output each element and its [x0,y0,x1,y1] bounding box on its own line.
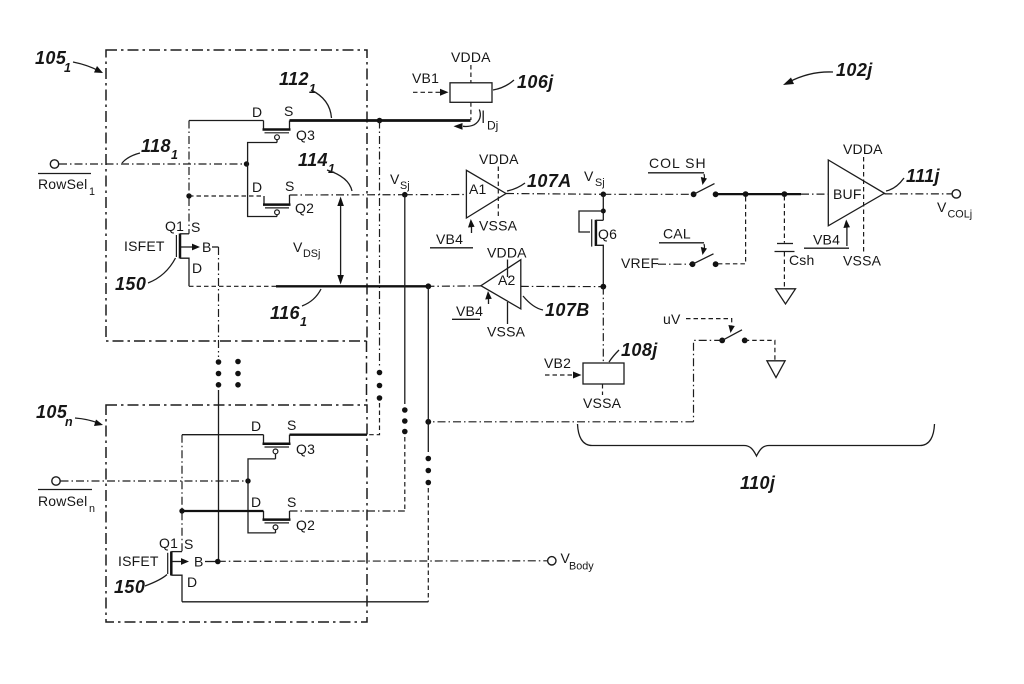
RowSel_1 overbar [38,173,91,175]
wire A1 output to Q6 node [506,193,603,196]
svg-text:112: 112 [279,69,309,89]
feedback column wire lower [427,488,429,602]
switch COL SH [691,191,697,197]
svg-text:n: n [89,503,95,515]
callout curve 106j [493,80,514,90]
callout curve 150 to gate (row n) [145,575,167,587]
op-amp A1 [466,170,506,218]
svg-text:ISFET: ISFET [124,238,165,254]
capacitor Csh [777,243,793,245]
node Q6 gate tie [601,209,606,214]
ISFET channel bar [179,234,182,259]
ISFET drain lead (row n) [171,575,182,602]
svg-text:150: 150 [115,274,146,294]
Q6 gate bar [591,219,593,246]
svg-text:105: 105 [35,48,67,68]
node CAL branch [743,191,749,197]
svg-text:VSSA: VSSA [479,218,518,234]
node: RowSel_n gate junction [245,478,250,483]
wire RowSel_n to gate column [61,480,249,482]
RowSel_n input terminal [52,477,60,485]
ISFET body arrow (row n) [172,561,185,563]
wire RowSel_1 to gate column [59,163,247,165]
svg-text:D: D [251,418,261,434]
svg-text:102j: 102j [836,60,873,80]
svg-text:1: 1 [309,82,316,96]
svg-text:114: 114 [298,150,328,170]
ISFET body arrow [181,246,196,248]
svg-text:ISFET: ISFET [118,553,159,569]
callout curve 118_1 [122,153,140,163]
svg-text:VB4: VB4 [456,303,483,319]
svg-text:BUF: BUF [833,186,862,202]
VB4 underline (BUF) [804,247,849,249]
wire uV switch to feedback column [694,340,723,421]
arrow from label 105_1 to box [73,62,99,71]
svg-text:S: S [191,219,201,235]
svg-text:V: V [937,199,947,215]
body column wire lower segment [218,390,220,562]
thick wire Q3 source (row n) [290,434,368,436]
svg-text:Sj: Sj [595,177,605,189]
arrow 102j [789,72,833,82]
CAL control arrow [703,244,706,250]
column wire: Q3/Q2 drains to ISFET source [188,121,190,234]
terminal V_COLj [952,190,960,198]
svg-text:107A: 107A [527,171,572,191]
gate column wire (Q3/Q2 gates) [248,143,277,217]
arrow from label 105_n to box [75,418,98,423]
svg-text:VB2: VB2 [544,355,571,371]
ISFET gate bar (row n) [167,553,169,574]
ISFET drain lead [180,258,189,286]
column j drain wire (thick wire to row n) [379,121,381,369]
svg-text:VDDA: VDDA [451,49,491,65]
svg-text:Q1: Q1 [159,535,178,551]
V_DSj measure arrow [340,200,342,281]
svg-text:Q1: Q1 [165,218,184,234]
wire B to body column [212,246,219,248]
wire: column boundary between cell boxes [366,341,368,405]
wire VB2 arrow into 108j [545,374,576,376]
ground (Csh) [776,289,796,304]
svg-text:VSSA: VSSA [487,324,526,340]
current source 106j (box) [450,83,492,103]
callout curve 114_1 [327,170,352,191]
svg-text:S: S [287,417,297,433]
transistor Q3 drain wire [189,120,264,122]
wire Csh to ground [783,252,785,288]
svg-text:1: 1 [300,315,307,329]
svg-text:VDDA: VDDA [843,141,883,157]
transistor Q6 (diode connected) [602,194,604,220]
wire CAL branch vertical [718,197,746,264]
wire uV horizontal to feedback column [428,421,693,423]
svg-text:107B: 107B [545,300,590,320]
svg-text:1: 1 [89,186,95,198]
svg-text:VSSA: VSSA [583,395,622,411]
svg-text:VDDA: VDDA [479,151,519,167]
svg-text:A2: A2 [498,272,516,288]
ISFET gate bar [175,235,177,257]
callout curve 111j [886,178,904,191]
transistor Q2 [263,196,265,204]
node body column / V_Body line [215,559,221,565]
supply rail through BUF [863,157,865,254]
V_Sj column lower segment [404,437,406,511]
svg-text:S: S [287,494,297,510]
callout curve 107B [523,296,543,310]
svg-text:S: S [285,178,295,194]
svg-text:DSj: DSj [303,248,320,260]
wire 106j to thick drain wire [470,102,472,120]
svg-text:116: 116 [270,303,300,323]
svg-text:S: S [184,536,194,552]
callout curve 116_1 [302,289,321,306]
svg-text:RowSel: RowSel [38,493,87,509]
switch uV [719,338,725,344]
label I_Dj [482,111,484,124]
svg-text:Q3: Q3 [296,127,315,143]
wire ISFET drain (row n) to feedback column [182,601,428,603]
uV control wire [686,319,732,327]
wire VDDA to 106j [470,65,472,83]
ground (uV) [767,361,785,378]
wire Q2 source (row n) to V_Sj column [290,510,405,512]
svg-text:D: D [251,494,261,510]
gate column wire (Q3/Q2 gates row n) [248,459,276,533]
Q6 channel bar [595,220,598,246]
ISFET source lead [180,233,189,235]
ellipsis dots drain column [377,370,383,376]
svg-text:Dj: Dj [487,119,498,133]
callout dash 107A [507,183,525,191]
svg-text:A1: A1 [469,181,487,197]
svg-text:V: V [390,171,400,187]
ISFET source lead (row n) [171,551,182,553]
Q6 gate loop [579,211,603,232]
svg-text:111j: 111j [906,166,941,186]
VB4 underline (A1) [430,247,473,249]
thick wire COL SH to BUF [716,193,801,195]
svg-text:uV: uV [663,311,681,327]
svg-text:VB4: VB4 [436,231,463,247]
svg-text:150: 150 [114,577,145,597]
wire BUF output [884,193,951,195]
svg-text:D: D [187,574,197,590]
node Q6 drain [601,192,607,198]
wire B to body junction (row n) [205,561,218,563]
svg-text:VB1: VB1 [412,70,439,86]
transistor Q2 (row n) drain wire [182,510,264,512]
Q6 source lead [596,245,603,286]
column wire drains to ISFET source (row n) [181,435,183,552]
callout curve 150 to gate [148,258,176,283]
svg-text:D: D [192,260,202,276]
svg-text:V: V [584,168,594,184]
svg-text:Q2: Q2 [295,200,314,216]
node V_Sj [402,192,408,198]
op-amp BUF [828,160,884,226]
ellipsis dots second column [235,359,241,365]
pixel cell box 105_n (dashed outline) [106,405,367,622]
Q6 drain lead [596,219,603,221]
feedback column wire (A2 out to ISFET drains) [427,286,429,452]
node: Q2 drain / ISFET source column junction [186,193,191,198]
svg-text:Q3: Q3 [296,441,315,457]
brace 110j [578,424,935,456]
svg-text:B: B [194,554,204,570]
svg-text:S: S [284,103,294,119]
supply rail A2 upper [507,260,509,278]
svg-text:V: V [293,239,303,255]
node Csh branch [782,191,788,197]
switch CAL [690,261,696,267]
capacitor Csh wire [783,196,785,243]
wire A2 output to feedback node [428,285,481,287]
wire VB1 arrow into 106j [413,91,443,93]
terminal V_Body [548,557,556,565]
ellipsis dots feedback column [426,456,432,462]
node on thick wire (column j drain line) [377,118,383,124]
svg-text:105: 105 [36,402,68,422]
svg-text:110j: 110j [740,473,776,493]
node uV / feedback column [425,419,431,425]
svg-text:VREF: VREF [621,255,659,271]
CAL underline [659,242,704,244]
wire VREF to CAL switch [658,263,693,265]
wire V_Sj node to A1 input [405,194,467,196]
node feedback column [425,283,431,289]
RowSel_1 input terminal [50,160,58,168]
svg-text:106j: 106j [517,72,554,92]
ellipsis dots V_Sj column [402,407,408,413]
wire A2 input from Q6 source node [521,285,604,287]
svg-text:B: B [202,239,212,255]
callout curve 112_1 [311,90,332,118]
VB4 arrow into BUF [846,225,848,246]
svg-text:108j: 108j [621,340,658,360]
transistor Q3 (row n) drain wire [182,434,264,436]
supply rail A2 lower [507,302,509,324]
svg-text:VB4: VB4 [813,232,840,248]
svg-text:RowSel: RowSel [38,176,87,192]
svg-text:1: 1 [64,61,71,75]
current arrow I_Dj [463,110,480,127]
svg-text:Csh: Csh [789,252,815,268]
thick wire Q3 source to current source 106j [290,119,471,122]
svg-text:Q2: Q2 [296,517,315,533]
ellipsis dots body column [216,359,222,365]
node: RowSel_1 gate junction [244,161,249,166]
VB4 arrow into A2 [488,296,490,304]
body column wire (to V_Body) [218,247,220,357]
svg-text:1: 1 [171,148,178,162]
svg-text:COLj: COLj [948,209,973,221]
wire 116_1 : ISFET drain feedback line [189,285,276,287]
svg-text:n: n [65,415,73,429]
svg-text:Body: Body [569,561,594,573]
transistor Q3 (row n) [263,435,265,443]
supply rail through A1 [497,167,499,219]
wire Q6 source node to 108j [602,287,604,363]
node: Q2 drain / ISFET source column (row n) [179,508,184,513]
wire uV switch to ground [745,340,775,360]
svg-text:COL SH: COL SH [649,155,707,171]
svg-text:VSSA: VSSA [843,253,882,269]
op-amp A2 [481,260,521,309]
svg-text:D: D [252,179,262,195]
svg-text:VDDA: VDDA [487,245,527,261]
wire 108j to VSSA [602,384,604,395]
wire V_Body [218,560,548,563]
drain column lower segment [367,403,380,435]
COL SH control arrow [703,174,706,180]
svg-text:Q6: Q6 [598,226,617,242]
current sink 108j (box) [583,363,624,384]
V_Sj column wire (to row n) [404,195,406,404]
transistor Q3 [263,121,265,129]
svg-text:CAL: CAL [663,226,691,242]
VB4 arrow into A1 [471,224,473,233]
VB4 underline (A2) [452,318,480,320]
svg-text:1: 1 [328,162,335,176]
svg-text:D: D [252,104,262,120]
pixel cell box 105_1 (dashed outline) [106,50,367,341]
ISFET channel bar (row n) [170,551,173,575]
wire Q2 source to V_Sj node [290,194,405,196]
COL SH underline [648,172,704,174]
RowSel_n overbar [38,489,92,491]
wire Q6 node to COL SH switch [603,193,693,195]
node Q6 source / A2 input [600,284,606,290]
svg-text:118: 118 [141,136,171,156]
svg-text:Sj: Sj [400,180,410,192]
transistor Q2 drain wire [189,195,264,197]
callout curve 108j [609,350,619,362]
transistor Q2 (row n) [263,511,265,519]
